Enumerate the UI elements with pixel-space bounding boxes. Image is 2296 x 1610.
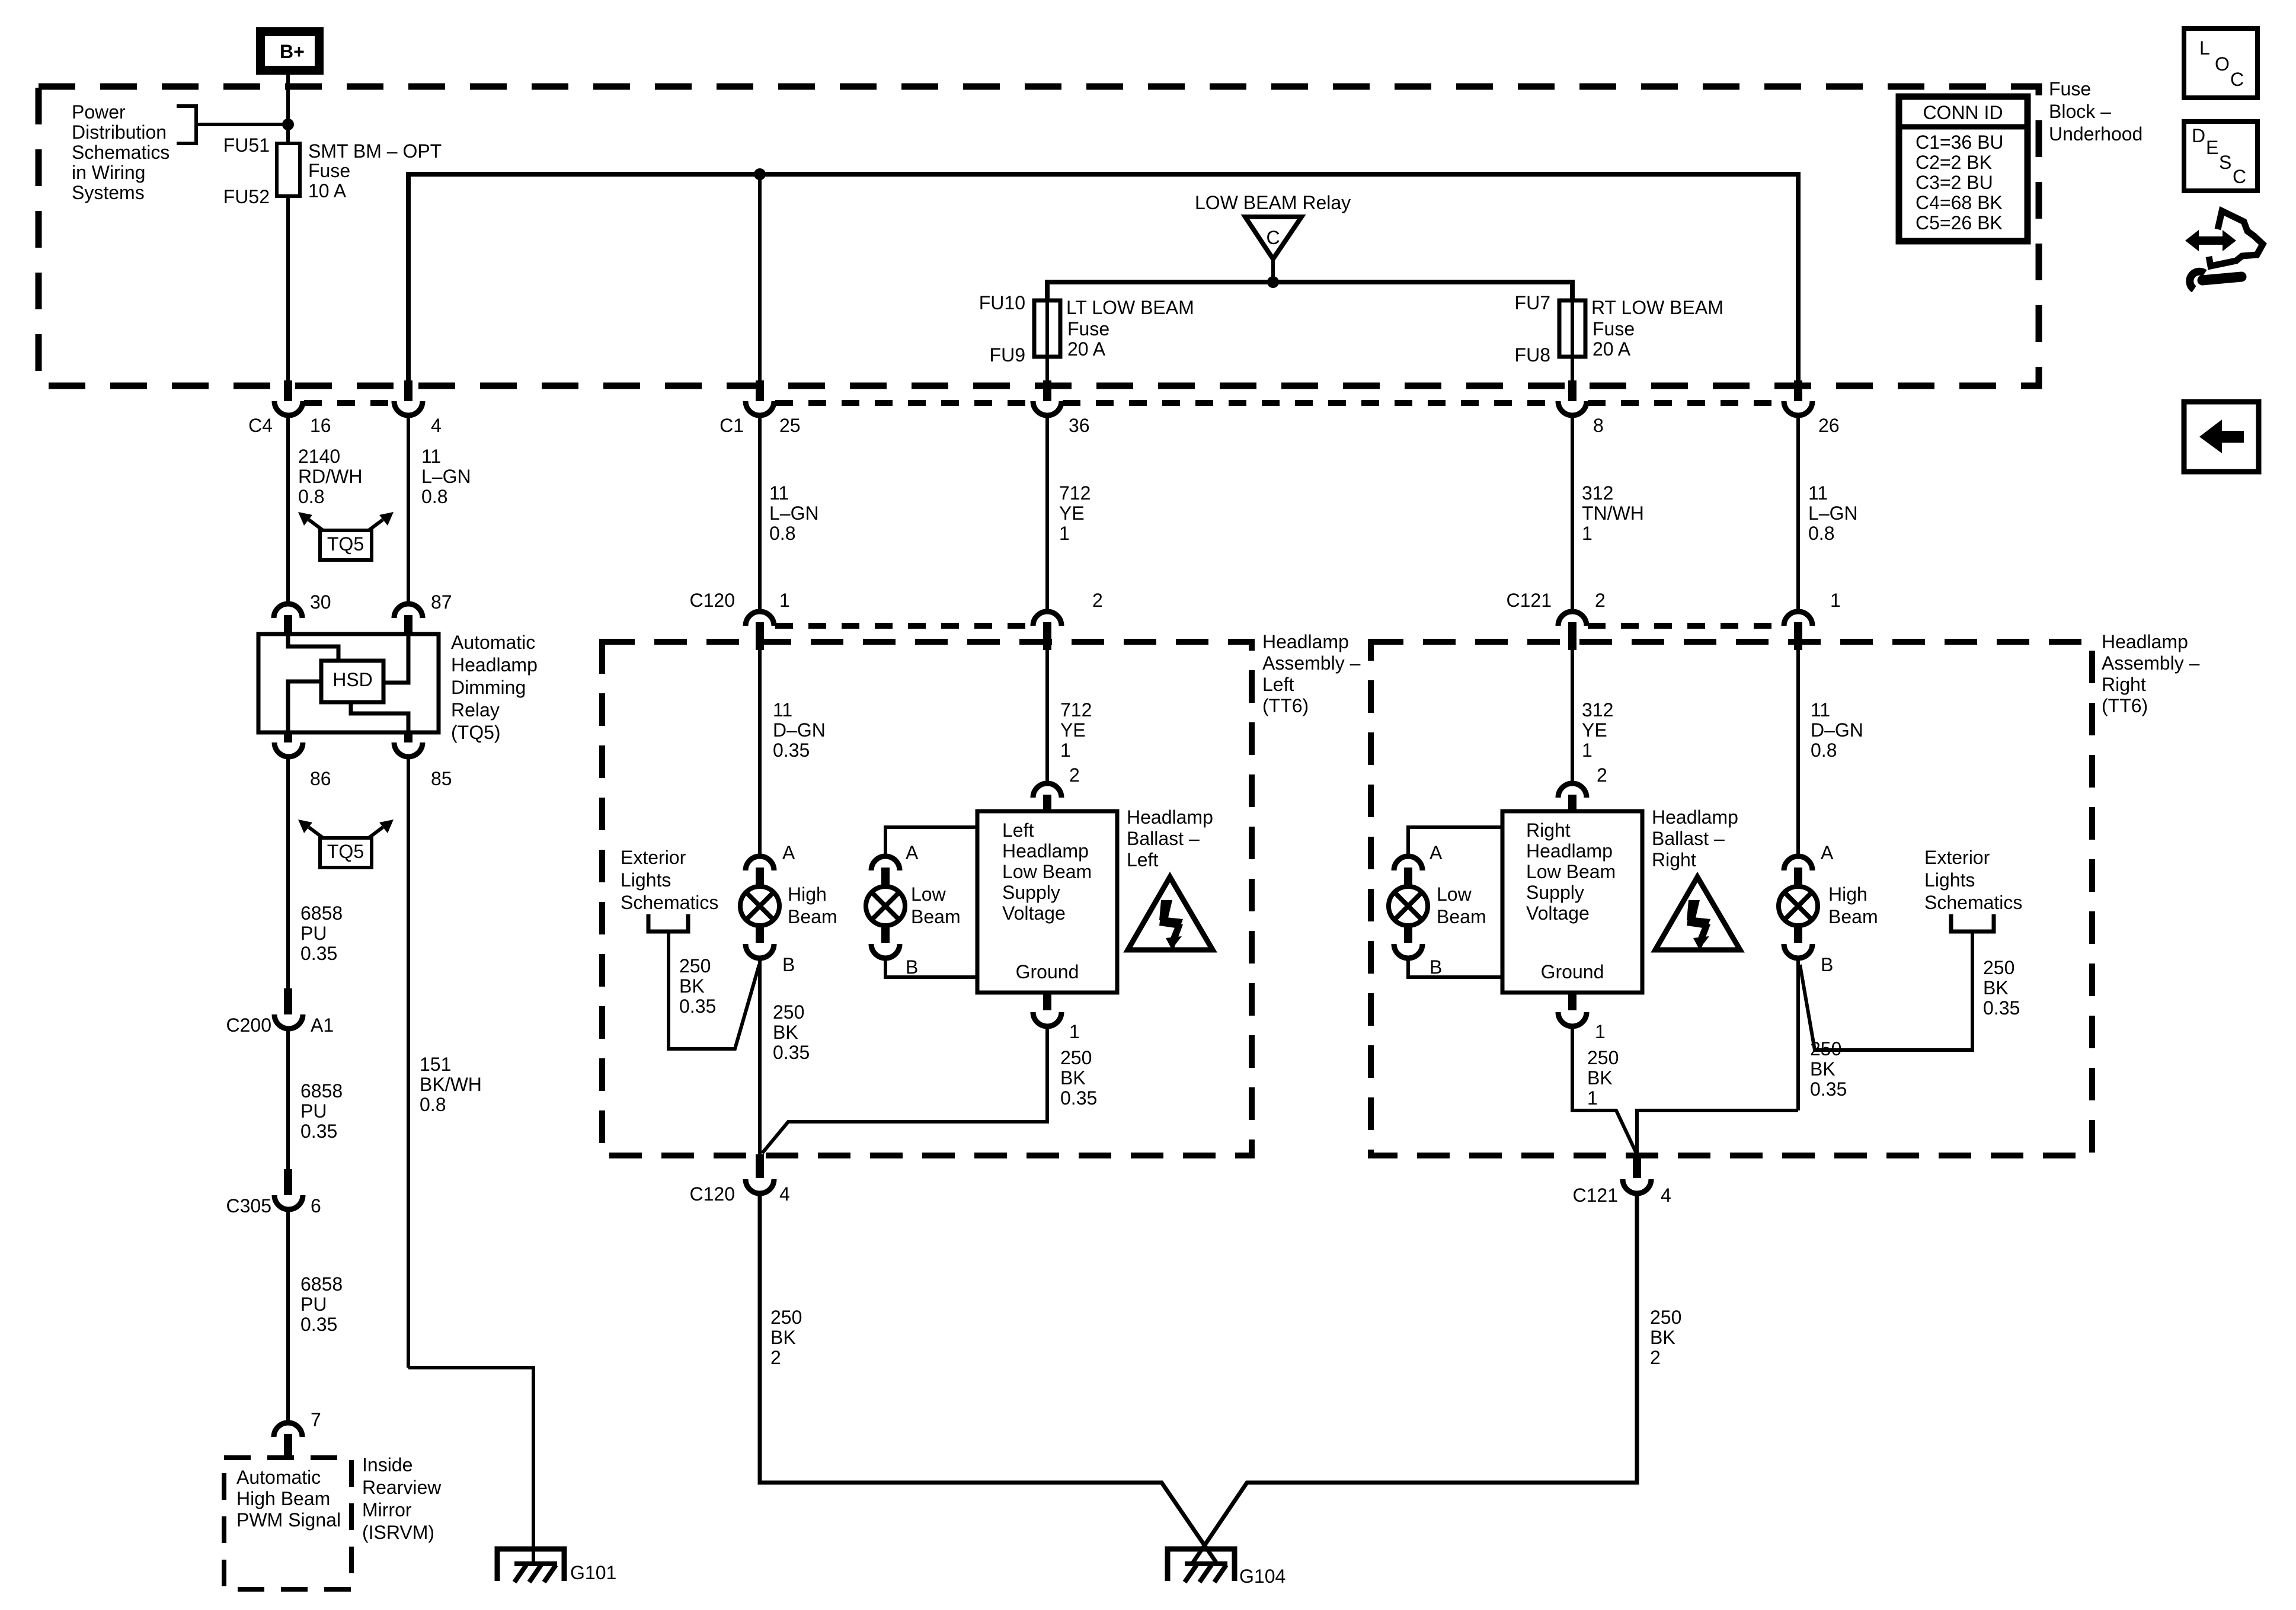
right low beam pin B connector — [1404, 924, 1412, 943]
svg-text:11: 11 — [1811, 699, 1830, 721]
svg-text:Lights: Lights — [1924, 869, 1975, 891]
connector line C120 dotted — [775, 623, 1032, 629]
fuse FU10/FU9 LT LOW BEAM 20A — [1034, 300, 1060, 357]
svg-text:6858: 6858 — [300, 1273, 343, 1295]
svg-text:Ballast –: Ballast – — [1652, 828, 1725, 849]
svg-text:2: 2 — [1650, 1347, 1661, 1368]
svg-text:250: 250 — [1650, 1307, 1681, 1328]
svg-text:20 A: 20 A — [1593, 338, 1631, 360]
svg-text:C120: C120 — [690, 1183, 736, 1205]
twisted pair symbol TQ5 — [298, 820, 394, 868]
wire pin 85 to ground run — [407, 757, 410, 1368]
ballast pin 1 connector — [1043, 993, 1051, 1010]
svg-text:D: D — [2192, 125, 2205, 146]
svg-text:(TT6): (TT6) — [2102, 695, 2148, 716]
svg-text:PU: PU — [300, 1294, 327, 1315]
svg-text:Power: Power — [72, 101, 126, 123]
svg-text:1: 1 — [1587, 1087, 1598, 1109]
wire through LT fuse — [1045, 300, 1049, 383]
svg-text:CONN ID: CONN ID — [1923, 102, 2003, 123]
svg-text:Fuse: Fuse — [1067, 318, 1109, 340]
svg-text:11: 11 — [769, 482, 789, 504]
svg-text:0.35: 0.35 — [1983, 997, 2020, 1019]
right high beam pin B connector — [1794, 924, 1802, 943]
svg-text:1: 1 — [1069, 1021, 1080, 1042]
svg-text:TQ5: TQ5 — [327, 841, 364, 862]
svg-text:712: 712 — [1060, 699, 1092, 721]
svg-text:Rearview: Rearview — [362, 1477, 442, 1498]
svg-text:C: C — [2230, 69, 2244, 90]
svg-text:D–GN: D–GN — [1811, 719, 1863, 741]
wire C200 to C305 — [286, 1029, 290, 1169]
svg-text:TQ5: TQ5 — [327, 533, 364, 555]
svg-text:C1=36 BU: C1=36 BU — [1916, 132, 2004, 153]
bracket for power distribution reference — [177, 106, 196, 143]
svg-text:FU52: FU52 — [223, 186, 270, 207]
svg-text:1: 1 — [1830, 590, 1841, 611]
svg-text:BK/WH: BK/WH — [420, 1074, 482, 1095]
svg-text:0.35: 0.35 — [773, 1042, 810, 1063]
svg-text:C1: C1 — [720, 415, 744, 436]
svg-text:BK: BK — [1810, 1058, 1835, 1080]
svg-text:Low Beam: Low Beam — [1002, 861, 1092, 882]
svg-text:High: High — [1828, 884, 1868, 905]
svg-text:Supply: Supply — [1002, 882, 1060, 903]
svg-text:6: 6 — [311, 1195, 321, 1217]
svg-text:Headlamp: Headlamp — [1127, 806, 1213, 828]
wire relay tip to fuse feed — [1271, 259, 1275, 282]
right low beam lamp wire B — [1408, 958, 1502, 977]
svg-text:10 A: 10 A — [308, 180, 347, 201]
svg-text:FU10: FU10 — [979, 292, 1025, 313]
connector C4 pin 16 — [284, 380, 292, 401]
svg-text:C3=2 BU: C3=2 BU — [1916, 172, 1993, 193]
wire C121-2 to ballast pin 2 — [1571, 650, 1574, 785]
LOC icon box — [2184, 28, 2257, 98]
svg-text:Left: Left — [1127, 849, 1158, 870]
wire junction node — [1267, 276, 1279, 288]
relay output C triangle — [1245, 217, 1302, 259]
battery feed B+ symbol — [256, 27, 324, 75]
svg-text:Left: Left — [1002, 820, 1034, 841]
wire relay output to both low beam fuses — [1047, 282, 1572, 300]
svg-text:Assembly –: Assembly – — [2102, 652, 2200, 674]
svg-text:PU: PU — [300, 923, 327, 944]
svg-text:Beam: Beam — [911, 906, 961, 927]
svg-text:Automatic: Automatic — [451, 632, 535, 653]
fuse block underhood dashed box — [39, 87, 2039, 386]
wire exterior lights to right high beam B — [1800, 932, 1972, 1050]
svg-text:Low: Low — [1437, 884, 1472, 905]
svg-text:RD/WH: RD/WH — [298, 466, 362, 487]
warning triangle right — [1655, 877, 1740, 950]
svg-text:Headlamp: Headlamp — [2102, 631, 2188, 652]
wire exterior lights to high beam B — [669, 932, 759, 1049]
svg-text:0.35: 0.35 — [679, 996, 716, 1017]
svg-text:Ballast –: Ballast – — [1127, 828, 1200, 849]
svg-text:YE: YE — [1060, 719, 1086, 741]
svg-text:85: 85 — [431, 768, 452, 789]
wire pin 26 to C121-1 — [1796, 415, 1800, 613]
connector C305 pin 6 — [284, 1169, 292, 1195]
svg-text:Right: Right — [1526, 820, 1571, 841]
wire C120-2 to ballast pin 2 — [1045, 650, 1049, 785]
svg-text:2: 2 — [770, 1347, 781, 1368]
svg-text:Distribution: Distribution — [72, 121, 167, 143]
svg-text:0.8: 0.8 — [1808, 523, 1834, 544]
svg-text:TN/WH: TN/WH — [1582, 502, 1644, 524]
svg-text:26: 26 — [1818, 415, 1840, 436]
svg-text:0.8: 0.8 — [1811, 740, 1837, 761]
svg-text:Headlamp: Headlamp — [451, 654, 538, 676]
svg-text:250: 250 — [773, 1001, 804, 1023]
connector line C4 dotted — [304, 400, 393, 406]
svg-text:20 A: 20 A — [1067, 338, 1106, 360]
svg-text:2140: 2140 — [298, 446, 340, 467]
svg-text:Headlamp: Headlamp — [1002, 840, 1089, 862]
svg-text:C4: C4 — [248, 415, 273, 436]
svg-text:30: 30 — [310, 591, 331, 613]
svg-text:Voltage: Voltage — [1002, 902, 1066, 924]
svg-text:A: A — [1430, 842, 1443, 863]
svg-text:L–GN: L–GN — [1808, 502, 1858, 524]
svg-text:B: B — [1430, 956, 1442, 978]
svg-text:16: 16 — [310, 415, 331, 436]
wire pin 86 to C200 — [286, 757, 290, 988]
wire junction node — [282, 119, 294, 130]
connector C120 pin 4 — [756, 1154, 764, 1178]
svg-text:Supply: Supply — [1526, 882, 1584, 903]
connector pin 26 — [1794, 380, 1802, 401]
svg-text:Right: Right — [2102, 674, 2146, 695]
svg-text:Headlamp: Headlamp — [1526, 840, 1613, 862]
wire junction node — [754, 168, 766, 180]
svg-text:Ground: Ground — [1016, 961, 1079, 982]
svg-text:FU51: FU51 — [223, 135, 270, 156]
svg-text:250: 250 — [1810, 1038, 1841, 1060]
connector line C121 dotted — [1588, 623, 1783, 629]
right low beam lamp wire A — [1408, 827, 1502, 857]
svg-text:Fuse: Fuse — [308, 160, 350, 181]
svg-text:High Beam: High Beam — [236, 1488, 330, 1509]
svg-text:1: 1 — [1059, 523, 1070, 544]
svg-text:Systems: Systems — [72, 182, 145, 203]
left low beam lamp wire A — [885, 827, 977, 857]
svg-text:250: 250 — [1587, 1047, 1619, 1068]
wire C4-4 to relay pin 87 — [407, 415, 410, 605]
svg-text:1: 1 — [1582, 523, 1593, 544]
svg-text:4: 4 — [431, 415, 442, 436]
svg-text:LOW BEAM Relay: LOW BEAM Relay — [1195, 192, 1351, 213]
svg-text:4: 4 — [1661, 1185, 1671, 1206]
svg-text:2: 2 — [1069, 764, 1080, 786]
svg-text:2: 2 — [1595, 590, 1606, 611]
wire 11 L-GN distribution run — [408, 174, 1798, 383]
left low beam lamp wire B — [885, 958, 977, 977]
svg-text:Schematics: Schematics — [72, 142, 170, 163]
DESC icon box — [2184, 121, 2257, 191]
svg-text:Beam: Beam — [1828, 906, 1878, 927]
warning triangle left — [1128, 877, 1213, 950]
svg-text:C2=2 BK: C2=2 BK — [1916, 152, 1992, 173]
svg-text:Exterior: Exterior — [1924, 847, 1990, 868]
svg-text:Assembly –: Assembly – — [1262, 652, 1361, 674]
svg-text:O: O — [2215, 53, 2230, 75]
right low beam lamp — [1389, 886, 1428, 926]
svg-text:RT LOW BEAM: RT LOW BEAM — [1591, 297, 1723, 318]
connector pin 36 — [1043, 380, 1051, 401]
svg-text:G101: G101 — [570, 1562, 616, 1583]
svg-text:Beam: Beam — [1437, 906, 1486, 927]
headlamp assembly right dashed box — [1371, 642, 2092, 1156]
wire C1-25 to C120-1 — [758, 415, 762, 613]
svg-text:C: C — [2233, 166, 2246, 187]
svg-text:BK: BK — [773, 1022, 798, 1043]
svg-text:250: 250 — [770, 1307, 802, 1328]
svg-text:FU7: FU7 — [1515, 292, 1550, 313]
svg-text:Relay: Relay — [451, 699, 500, 721]
svg-text:Fuse: Fuse — [1593, 318, 1635, 340]
svg-text:B: B — [782, 954, 795, 975]
wire right high beam B down — [1796, 958, 1800, 1110]
svg-text:A: A — [782, 842, 795, 863]
relay pin 85 — [404, 732, 412, 742]
svg-text:Underhood: Underhood — [2049, 123, 2142, 145]
exterior lights bracket left — [648, 914, 688, 932]
wire to power distribution bracket — [196, 123, 288, 126]
svg-text:712: 712 — [1059, 482, 1091, 504]
relay internal wiring — [288, 634, 338, 661]
HSD driver box — [321, 661, 383, 702]
component view icon (panel outline, double arrow, wrench) — [2185, 211, 2263, 289]
svg-text:C121: C121 — [1573, 1185, 1619, 1206]
wire pin 8 to C121-2 — [1571, 415, 1574, 613]
wire C120-1 to left high beam — [758, 650, 762, 857]
exterior lights bracket right — [1951, 914, 1994, 932]
connector pin 8 — [1568, 380, 1576, 401]
wire pin 85 run to G101 — [408, 1368, 533, 1564]
svg-text:0.8: 0.8 — [298, 486, 324, 507]
svg-text:S: S — [2219, 152, 2231, 173]
wire pin 36 to C120-2 — [1045, 415, 1049, 613]
connector C200 pin A1 — [284, 988, 292, 1014]
wire ballast ground to C120-4 — [762, 1026, 1047, 1153]
svg-text:8: 8 — [1593, 415, 1604, 436]
svg-text:6858: 6858 — [300, 1080, 343, 1102]
svg-text:LT LOW BEAM: LT LOW BEAM — [1066, 297, 1194, 318]
ground G101 — [497, 1549, 564, 1582]
svg-text:Fuse: Fuse — [2049, 78, 2091, 100]
svg-text:BK: BK — [1587, 1067, 1613, 1089]
twisted pair symbol TQ5 — [298, 512, 394, 560]
wire drop to C1-25 — [758, 174, 762, 383]
svg-text:Schematics: Schematics — [1924, 892, 2022, 913]
svg-text:Automatic: Automatic — [236, 1467, 321, 1488]
svg-text:B: B — [1821, 954, 1833, 975]
svg-text:C200: C200 — [226, 1014, 272, 1036]
connector C1 pin 25 — [756, 380, 764, 401]
svg-text:250: 250 — [1983, 957, 2014, 978]
right high beam lamp — [1779, 886, 1818, 926]
svg-text:1: 1 — [1582, 740, 1593, 761]
svg-text:Headlamp: Headlamp — [1652, 806, 1738, 828]
ground G104 — [1168, 1549, 1235, 1582]
fuse FU7/FU8 RT LOW BEAM 20A — [1559, 300, 1585, 357]
right headlamp ballast box — [1502, 811, 1642, 993]
relay pin 86 — [284, 732, 292, 742]
svg-text:Headlamp: Headlamp — [1262, 631, 1349, 652]
svg-text:C121: C121 — [1507, 590, 1552, 611]
svg-text:6858: 6858 — [300, 902, 343, 924]
svg-text:FU8: FU8 — [1515, 344, 1550, 366]
svg-text:11: 11 — [773, 699, 792, 721]
svg-text:Exterior: Exterior — [621, 847, 686, 868]
svg-text:Left: Left — [1262, 674, 1294, 695]
svg-text:Beam: Beam — [788, 906, 837, 927]
automatic headlamp dimming relay box — [258, 634, 439, 732]
wire C121-1 to right high beam — [1796, 650, 1800, 857]
svg-text:4: 4 — [779, 1183, 790, 1205]
svg-text:A: A — [1821, 842, 1834, 863]
svg-text:1: 1 — [1060, 740, 1071, 761]
left low beam lamp — [866, 886, 905, 926]
svg-text:25: 25 — [779, 415, 801, 436]
svg-text:2: 2 — [1597, 764, 1607, 786]
svg-text:86: 86 — [310, 768, 331, 789]
svg-text:C: C — [1266, 227, 1280, 248]
svg-text:(TT6): (TT6) — [1262, 695, 1309, 716]
svg-text:Mirror: Mirror — [362, 1499, 412, 1521]
svg-text:Low: Low — [911, 884, 946, 905]
connector C121 pin 4 — [1633, 1154, 1641, 1178]
svg-text:1: 1 — [779, 590, 790, 611]
svg-text:BK: BK — [1060, 1067, 1086, 1089]
svg-text:0.8: 0.8 — [769, 523, 795, 544]
svg-text:0.8: 0.8 — [421, 486, 447, 507]
svg-text:A: A — [906, 842, 919, 863]
wire through RT fuse — [1571, 300, 1574, 383]
svg-text:YE: YE — [1582, 719, 1607, 741]
svg-text:Right: Right — [1652, 849, 1696, 870]
svg-text:0.35: 0.35 — [300, 943, 337, 964]
svg-text:1: 1 — [1595, 1021, 1606, 1042]
svg-text:in Wiring: in Wiring — [72, 162, 145, 183]
svg-text:Low Beam: Low Beam — [1526, 861, 1616, 882]
svg-text:Lights: Lights — [621, 869, 671, 891]
svg-text:0.35: 0.35 — [773, 740, 810, 761]
svg-text:0.8: 0.8 — [420, 1094, 446, 1115]
connector C4 pin 4 — [404, 380, 412, 401]
svg-text:BK: BK — [679, 975, 705, 997]
wire B+ down to fuse FU51 — [286, 75, 290, 145]
svg-text:C4=68 BK: C4=68 BK — [1916, 192, 2003, 213]
svg-text:0.35: 0.35 — [1810, 1078, 1847, 1100]
svg-text:11: 11 — [1808, 482, 1828, 504]
svg-text:BK: BK — [1650, 1327, 1675, 1348]
svg-text:151: 151 — [420, 1054, 451, 1075]
svg-text:SMT BM – OPT: SMT BM – OPT — [308, 140, 442, 162]
svg-text:HSD: HSD — [332, 669, 373, 690]
left low beam pin B connector — [881, 924, 890, 943]
fuse FU51/FU52 SMT BM OPT 10A — [277, 143, 300, 196]
wire fuse FU52 down to C4-16 — [286, 196, 290, 383]
svg-text:A1: A1 — [311, 1014, 334, 1036]
svg-text:High: High — [788, 884, 827, 905]
svg-text:FU9: FU9 — [990, 344, 1025, 366]
svg-text:2: 2 — [1092, 590, 1103, 611]
wire C305 to ISRVM pin 7 — [286, 1209, 290, 1424]
svg-text:Dimming: Dimming — [451, 677, 526, 698]
CONN ID table — [1899, 97, 2028, 241]
svg-text:D–GN: D–GN — [773, 719, 826, 741]
svg-text:0.35: 0.35 — [1060, 1087, 1097, 1109]
back arrow icon box — [2184, 402, 2259, 472]
left headlamp ballast box — [977, 811, 1117, 993]
svg-text:312: 312 — [1582, 482, 1613, 504]
inside rearview mirror dashed box — [224, 1458, 351, 1589]
wire C120-4 to G104 — [760, 1193, 1218, 1565]
svg-text:PU: PU — [300, 1100, 327, 1122]
svg-text:L: L — [2199, 37, 2210, 59]
svg-text:(ISRVM): (ISRVM) — [362, 1522, 434, 1543]
svg-text:250: 250 — [1060, 1047, 1092, 1068]
svg-text:C5=26 BK: C5=26 BK — [1916, 212, 2003, 233]
wire high beam B to C120-4 — [758, 958, 762, 1154]
wire C4-16 to relay pin 30 — [286, 415, 290, 605]
svg-text:250: 250 — [679, 955, 711, 977]
svg-text:BK: BK — [1983, 977, 2009, 998]
svg-text:Ground: Ground — [1541, 961, 1604, 982]
svg-text:Block –: Block – — [2049, 101, 2111, 122]
svg-text:Voltage: Voltage — [1526, 902, 1590, 924]
wire ballast ground join to C121-4 — [1572, 1026, 1636, 1152]
svg-text:0.35: 0.35 — [300, 1121, 337, 1142]
left high beam pin B connector — [756, 924, 764, 943]
headlamp assembly left dashed box — [602, 642, 1252, 1156]
svg-text:B: B — [906, 956, 918, 978]
svg-text:87: 87 — [431, 591, 452, 613]
svg-text:Schematics: Schematics — [621, 892, 718, 913]
ballast pin 1 connector right — [1568, 993, 1576, 1010]
svg-text:BK: BK — [770, 1327, 796, 1348]
svg-text:(TQ5): (TQ5) — [451, 722, 501, 743]
svg-text:YE: YE — [1059, 502, 1085, 524]
svg-text:Inside: Inside — [362, 1454, 412, 1475]
svg-text:E: E — [2206, 137, 2218, 158]
connector line C1 dotted — [775, 400, 1032, 406]
svg-text:L–GN: L–GN — [421, 466, 471, 487]
wire C121-4 to G104 — [1191, 1193, 1637, 1565]
svg-text:L–GN: L–GN — [769, 502, 819, 524]
svg-text:C305: C305 — [226, 1195, 272, 1217]
svg-text:7: 7 — [311, 1409, 321, 1430]
svg-text:11: 11 — [421, 446, 441, 467]
svg-text:0.35: 0.35 — [300, 1314, 337, 1335]
svg-text:36: 36 — [1069, 415, 1090, 436]
svg-text:B+: B+ — [280, 41, 305, 62]
svg-text:PWM Signal: PWM Signal — [236, 1509, 341, 1531]
svg-text:C120: C120 — [690, 590, 736, 611]
svg-text:G104: G104 — [1239, 1566, 1285, 1587]
svg-text:312: 312 — [1582, 699, 1613, 721]
left high beam lamp — [740, 886, 779, 926]
